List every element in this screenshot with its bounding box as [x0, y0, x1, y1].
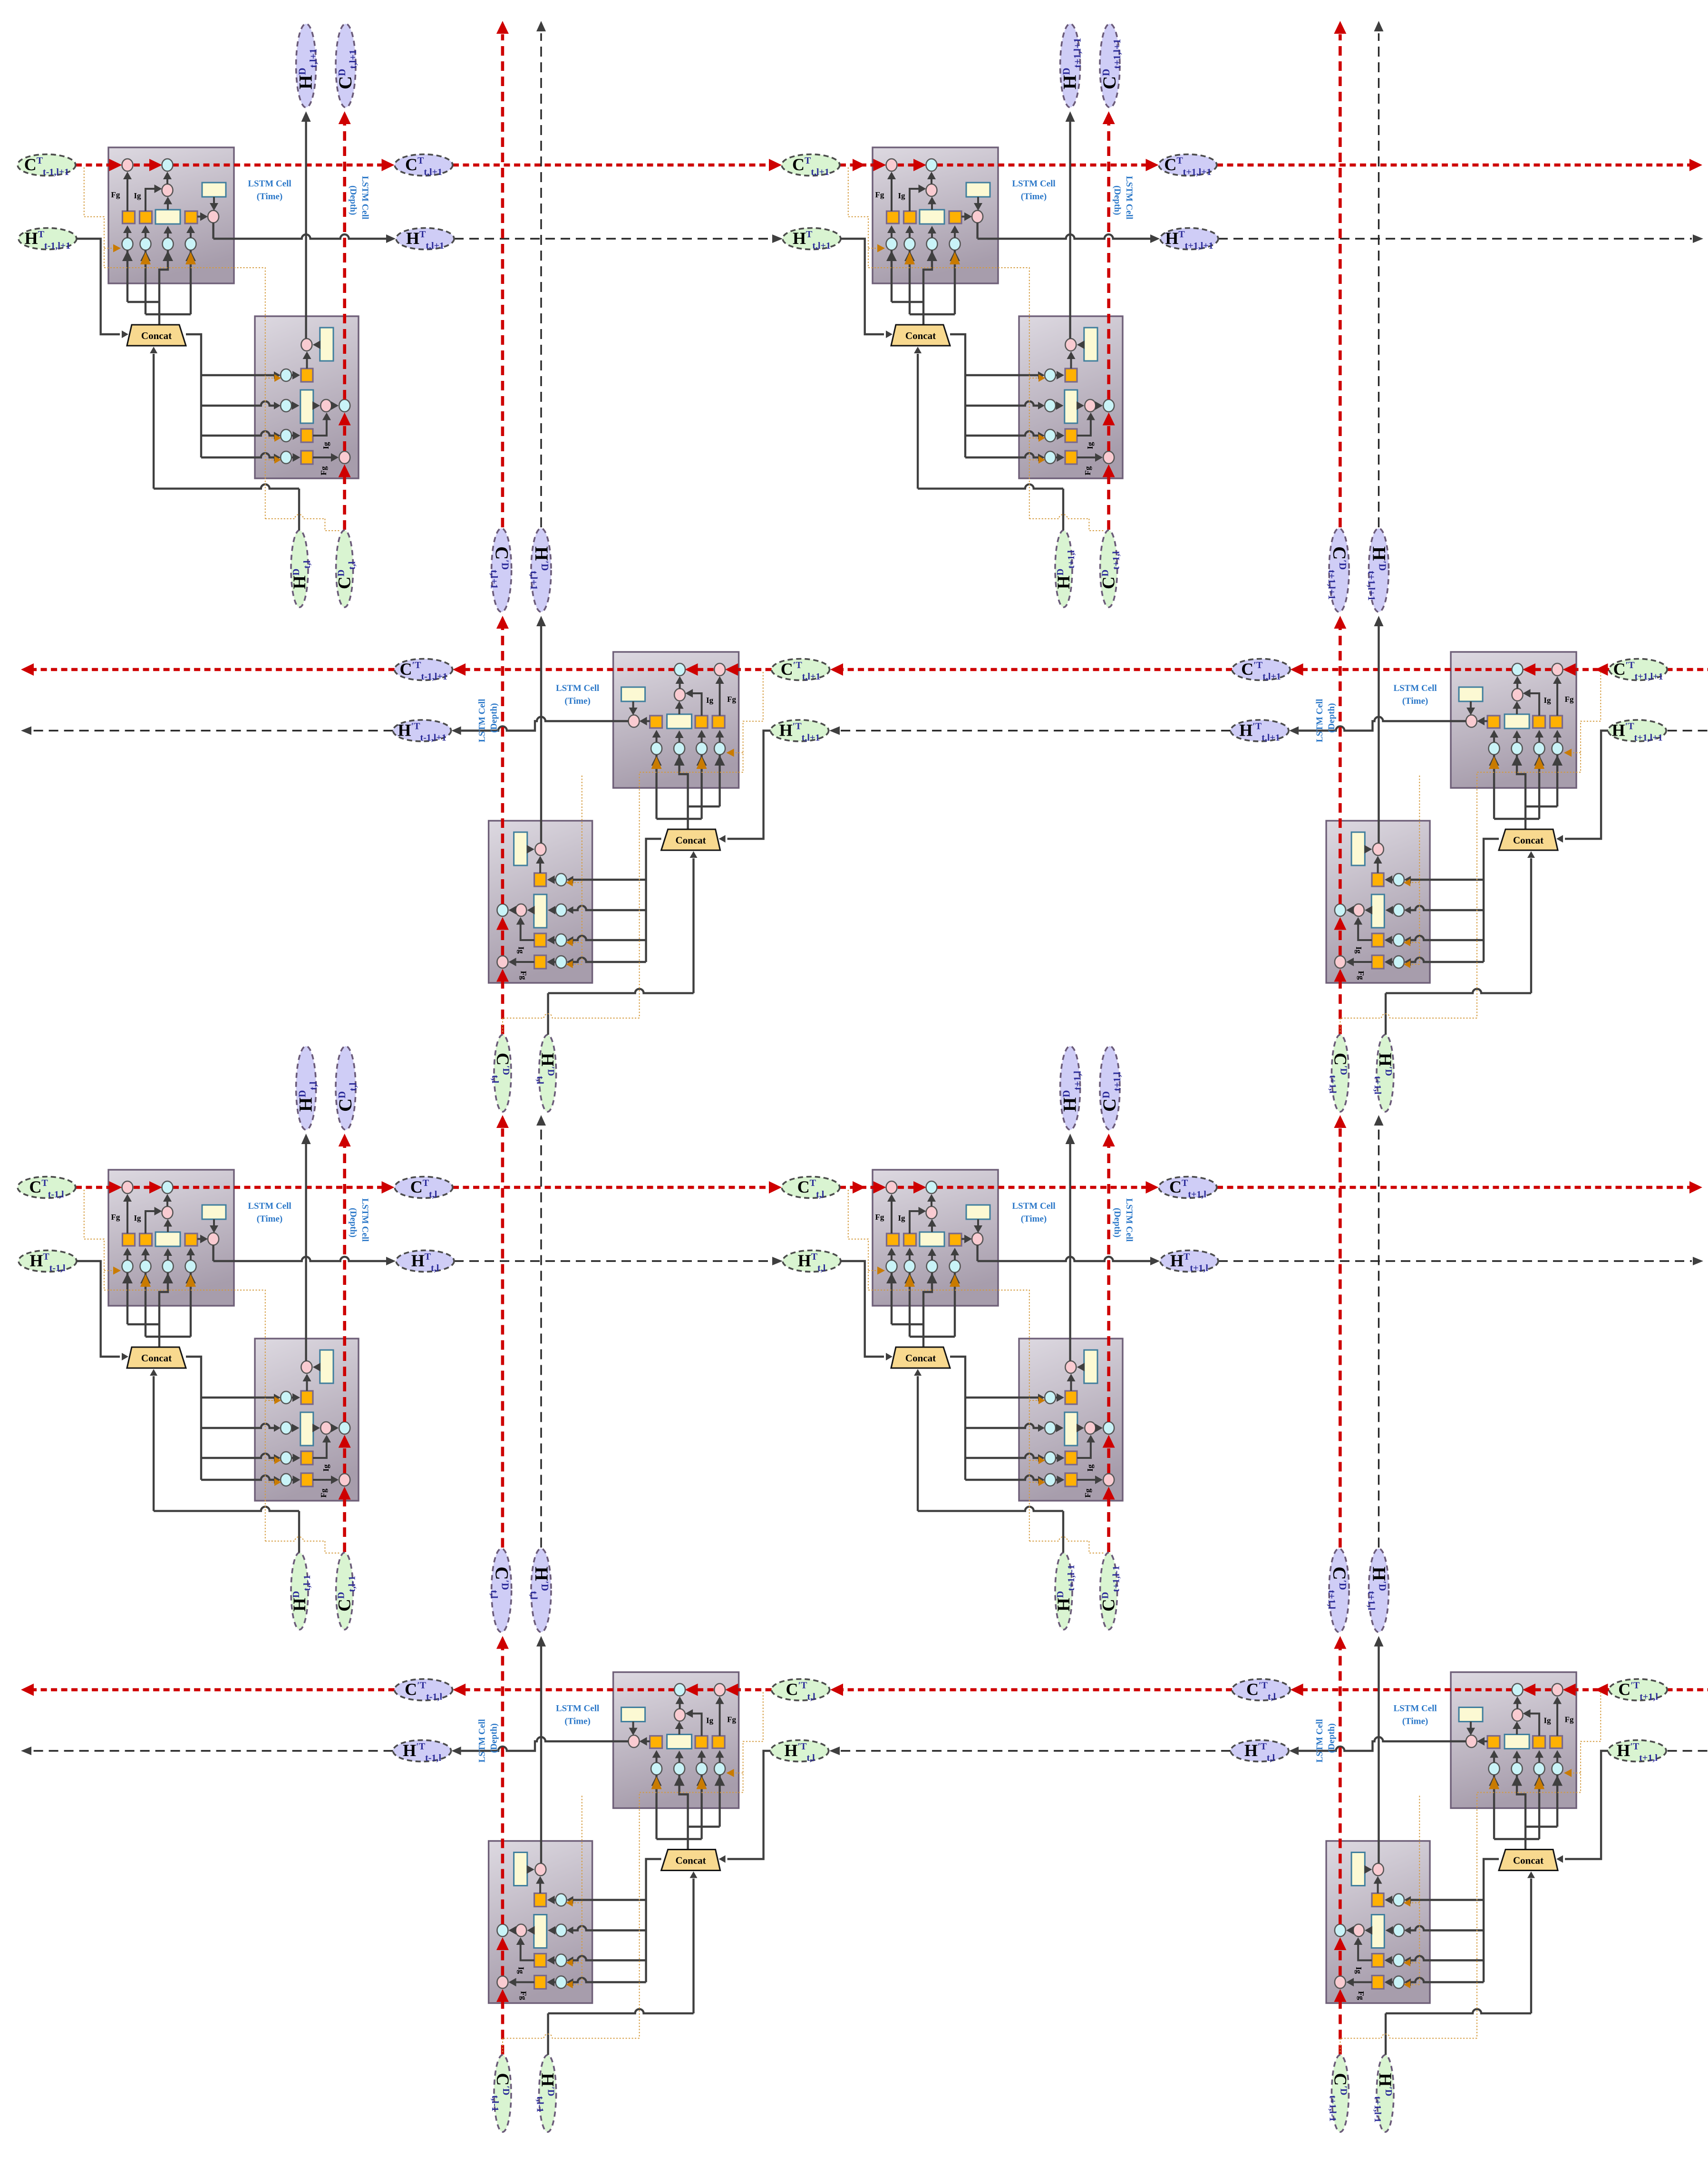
svg-text:Ig: Ig — [321, 1464, 330, 1472]
N4: depth gate square row1 — [1065, 1391, 1077, 1404]
N3: depth gate square row4 — [301, 1473, 313, 1486]
N4: ellipse input H state — [783, 1251, 841, 1272]
M1: node cyan input 1 — [714, 742, 725, 755]
M1: wire cyan2->Ig->pink — [685, 689, 706, 742]
N2: wire H input to concat — [841, 239, 893, 338]
svg-text:(Depth): (Depth) — [1112, 185, 1122, 215]
svg-text:Fg: Fg — [319, 1488, 328, 1497]
N2: wire concat output to depth cell — [950, 334, 1045, 461]
N2: wire cyan4->Og->output pink — [951, 213, 972, 238]
M1: wire depth H output up — [536, 616, 546, 843]
M2: wire depth H input to concat — [1386, 851, 1535, 1035]
N3: ellipse depth H out — [296, 1046, 316, 1130]
N4: node cyan add on C line — [926, 1181, 937, 1194]
N4: depth output tanh rect — [1084, 1350, 1097, 1383]
M2: depth wire row1 — [1374, 856, 1394, 884]
N2: ellipse output C state — [1159, 155, 1217, 176]
M1: gate Og square — [650, 716, 662, 728]
svg-text:LSTM Cell: LSTM Cell — [360, 176, 370, 219]
svg-text:Fg: Fg — [319, 466, 328, 475]
N1: depth gate square row3 — [301, 429, 313, 442]
M4: depth node cyan row3 — [1393, 1954, 1404, 1967]
M4: depth node cyan row4 — [1393, 1976, 1404, 1989]
M2: depth node pink on red line — [1335, 956, 1346, 968]
N2: extra red arrow after input ellipse — [853, 159, 865, 171]
svg-text:LSTM Cell: LSTM Cell — [1393, 683, 1436, 693]
N1: depth node cyan row2 — [281, 399, 291, 412]
M3: wire H output to ellipse (jog) — [452, 1737, 629, 1755]
N3: wire cyan2->Ig->pink — [141, 1207, 162, 1260]
M4: node pink Ig-product — [1512, 1709, 1523, 1721]
wire H row3 between clusters — [454, 1260, 771, 1262]
N2: node cyan input 2 — [904, 238, 915, 250]
N3: ellipse output C state — [395, 1177, 453, 1198]
N1: gate Fg square — [123, 211, 135, 223]
svg-text:(Depth): (Depth) — [489, 703, 499, 733]
N4: depth node pink on red line — [1103, 1474, 1114, 1486]
N2: depth node cyan on red line — [1103, 399, 1114, 412]
N4: wire C-state into time cell (red dashed) — [840, 1181, 1159, 1194]
N4: depth wire row3 — [1056, 1435, 1095, 1463]
svg-text:Ig: Ig — [1544, 1716, 1552, 1725]
N1: ellipse output C state — [395, 155, 453, 176]
M2: node pink output product — [1466, 715, 1477, 728]
M3: depth gate square row4 — [534, 1976, 546, 1989]
M3: node pink Ig-product — [674, 1709, 685, 1721]
N1: wire depth H input to concat — [150, 347, 299, 530]
N2: node cyan input 4 — [950, 238, 961, 250]
N2: node cyan input 3 — [927, 238, 938, 250]
M2: node cyan add on C line — [1512, 663, 1523, 676]
M3: output tanh rect — [621, 1708, 645, 1722]
svg-text:Ig: Ig — [134, 191, 141, 200]
N3: peephole wires (orange dotted) — [84, 1190, 340, 1553]
M3: ellipse input C state — [772, 1679, 830, 1700]
M2: depth wire tanh->pink — [1364, 845, 1372, 854]
M1: gate Fg square — [712, 716, 725, 728]
M3: depth node cyan on red line — [497, 1924, 508, 1937]
M2: node cyan input 2 — [1534, 742, 1545, 755]
wire H row2 to left edge — [32, 730, 393, 731]
N2: wire C-state into time cell (red dashed) — [840, 159, 1159, 171]
N2: ellipse depth C in — [1100, 530, 1117, 607]
M1: depth node cyan row4 — [556, 956, 567, 968]
M3: wire out-tanh->output pink — [629, 1722, 638, 1736]
M3: concat block — [661, 1850, 720, 1871]
M2: output tanh rect — [1459, 687, 1483, 701]
N1: depth wire row3 — [291, 413, 331, 440]
wire H row2 from right edge — [1668, 730, 1708, 731]
M2: ellipse output H state — [1231, 720, 1289, 741]
N1: peephole wires (orange dotted) — [84, 167, 340, 531]
N2: depth wire row2 — [1056, 401, 1103, 410]
wire H row4 between clusters — [841, 1750, 1231, 1751]
svg-text:Ig: Ig — [1354, 946, 1363, 954]
N2: depth wire tanh->pink — [1077, 340, 1085, 349]
M3: node pink output product — [629, 1735, 640, 1748]
N3: depth wire row3 — [291, 1435, 331, 1463]
M1: depth gate square row3 — [534, 933, 546, 947]
N1: depth node pink mid — [320, 399, 331, 412]
svg-text:Concat: Concat — [905, 1352, 936, 1364]
N2: wire cyan1->Fg->multiply — [887, 172, 896, 238]
N4: node cyan input 2 — [904, 1260, 915, 1272]
M1: depth node pink mid — [515, 904, 526, 916]
N4: node cyan input 3 — [927, 1260, 938, 1272]
M1: node pink Ig-product — [674, 689, 685, 701]
N3: wire C-state into time cell (red dashed) — [76, 1181, 395, 1194]
M3: depth continuation dashed up (black) — [536, 1115, 546, 1548]
M4: wire depth H input to concat — [1386, 1872, 1535, 2055]
M4: depth node pink mid — [1353, 1924, 1364, 1937]
M4: depth output tanh rect — [1351, 1853, 1365, 1886]
N2: depth wire row4 — [1056, 453, 1103, 462]
N1: depth node cyan row1 — [281, 369, 291, 381]
N4: wire cyan1->Fg->multiply — [887, 1194, 896, 1260]
svg-text:(Depth): (Depth) — [1112, 1208, 1122, 1237]
M2: depth wire row4 — [1346, 958, 1393, 966]
N3: node pink Ig-product — [162, 1206, 173, 1219]
N2: gate candidate tanh rect — [920, 210, 944, 224]
N2: node cyan input 1 — [886, 238, 897, 250]
M1: gate candidate tanh rect — [667, 714, 692, 728]
N4: wire cyan3->tanh->pink->add — [927, 1194, 936, 1260]
wire C row3 to right edge — [1217, 1186, 1691, 1189]
M2: wire cyan3->tanh->pink->add — [1513, 676, 1522, 742]
svg-text:LSTM Cell: LSTM Cell — [556, 683, 599, 693]
wire C row2 from right edge — [1667, 668, 1708, 671]
N4: depth gate square row3 — [1065, 1451, 1077, 1465]
N4: wire H output to ellipse — [978, 1245, 1160, 1266]
M1: wire depth H input to concat — [548, 851, 698, 1035]
N2: depth node pink output — [1065, 339, 1076, 351]
M3: depth node cyan row2 — [556, 1924, 567, 1937]
M2: wire depth H output up — [1374, 616, 1384, 843]
N2: depth node pink on red line — [1103, 451, 1114, 464]
M4: ellipse input C state — [1609, 1679, 1667, 1700]
N3: ellipse depth C out — [336, 1046, 356, 1130]
M3: depth wire row1 — [536, 1876, 556, 1904]
N4: node cyan input 1 — [886, 1260, 897, 1272]
N2: wire depth C state (red, vertical) — [1103, 111, 1115, 530]
N4: LSTM time-cell box — [873, 1170, 998, 1306]
M4: output tanh rect — [1459, 1708, 1483, 1722]
wire C row3 between clusters — [453, 1186, 770, 1189]
N1: node pink output product — [208, 211, 219, 223]
wire H row1 to right edge — [1218, 238, 1692, 239]
M2: wire concat output to depth cell — [1404, 839, 1499, 966]
N4: node cyan input 4 — [950, 1260, 961, 1272]
M2: extra red arrow after input ellipse — [1595, 663, 1608, 676]
M2: depth continuation dashed up (black) — [1374, 21, 1384, 527]
N3: node pink output product — [208, 1233, 219, 1245]
M4: depth wire row4 — [1346, 1978, 1393, 1987]
svg-text:Fg: Fg — [1565, 695, 1574, 704]
N1: ellipse depth C out — [336, 24, 356, 107]
M4: depth continuation dashed up (black) — [1374, 1115, 1384, 1548]
N1: node cyan input 2 — [140, 238, 151, 250]
N2: gate Og square — [949, 211, 961, 223]
N1: ellipse depth C in — [336, 530, 353, 607]
M1: wire C-state into time cell (red dashed) — [453, 663, 772, 676]
N2: depth gate tanh tall rect — [1065, 390, 1077, 423]
M2: depth wire row3 — [1354, 917, 1393, 945]
svg-text:Concat: Concat — [676, 835, 706, 846]
wire H row1 between clusters (black dashed) — [454, 238, 771, 239]
M2: wire cyan4->Og->output pink — [1477, 717, 1498, 743]
svg-text:(Depth): (Depth) — [348, 1208, 358, 1237]
N4: depth node cyan row3 — [1045, 1452, 1056, 1464]
M1: depth node cyan row3 — [556, 934, 567, 946]
M4: ellipse depth C in — [1332, 2055, 1349, 2132]
N2: node cyan add on C line — [926, 159, 937, 171]
M1: ellipse output C state — [395, 659, 453, 680]
N2: wire cyan2->Ig->pink — [905, 184, 926, 238]
svg-text:LSTM Cell: LSTM Cell — [1124, 1198, 1134, 1242]
N4: depth node cyan row4 — [1045, 1474, 1056, 1486]
svg-text:Ig: Ig — [898, 191, 905, 200]
M3: wire cyan2->Ig->pink — [685, 1709, 706, 1763]
M4: depth node cyan on red line — [1335, 1924, 1346, 1937]
N4: wire H input to concat — [841, 1261, 893, 1360]
M1: concat block — [661, 829, 720, 850]
M3: depth gate square row3 — [534, 1954, 546, 1967]
svg-text:Ig: Ig — [517, 1967, 526, 1974]
M3: depth node cyan row3 — [556, 1954, 567, 1967]
N3: depth wire row4 — [291, 1476, 339, 1484]
M4: extra red arrow after input ellipse — [1595, 1684, 1608, 1696]
M3: wire depth C state (red, vertical) — [496, 1636, 509, 2055]
N3: gate Ig square — [140, 1233, 152, 1246]
N2: depth gate square row1 — [1065, 369, 1077, 382]
N4: node pink multiply on C line — [886, 1181, 897, 1194]
M4: wire out-tanh->output pink — [1466, 1722, 1475, 1736]
M3: depth node pink mid — [515, 1924, 526, 1937]
N3: depth wire row1 — [291, 1374, 311, 1402]
M2: depth node cyan row4 — [1393, 956, 1404, 968]
M3: gate Og square — [650, 1736, 662, 1748]
M1: ellipse depth C in — [494, 1035, 511, 1112]
svg-text:Fg: Fg — [111, 1213, 120, 1222]
N3: node cyan input 2 — [140, 1260, 151, 1272]
M3: depth node cyan row4 — [556, 1976, 567, 1989]
N1: wire cyan2->Ig->pink — [141, 184, 162, 238]
M4: wire cyan2->Ig->pink — [1523, 1709, 1544, 1763]
wire C row1 between clusters (red dashed) — [453, 164, 770, 167]
M1: ellipse depth H out — [531, 528, 551, 612]
M3: depth wire tanh->pink — [527, 1865, 534, 1874]
M4: wire cyan4->Og->output pink — [1477, 1737, 1498, 1763]
N1: wire cyan4->Og->output pink — [186, 213, 208, 238]
svg-text:Ig: Ig — [1354, 1967, 1363, 1974]
M4: ellipse depth H in — [1377, 2055, 1394, 2132]
svg-text:Ig: Ig — [1086, 442, 1095, 449]
M1: depth output tanh rect — [514, 832, 527, 865]
M2: wire cell feedback to concat — [1489, 755, 1562, 829]
M1: ellipse input C state — [772, 659, 830, 680]
M3: gate candidate tanh rect — [667, 1735, 692, 1749]
N3: ellipse depth C in — [336, 1553, 353, 1630]
wire C row4 to left edge — [32, 1688, 395, 1691]
M2: node pink Ig-product — [1512, 689, 1523, 701]
svg-text:Concat: Concat — [676, 1855, 706, 1866]
N4: node pink Ig-product — [926, 1206, 937, 1219]
M2: ellipse depth H in — [1377, 1035, 1394, 1112]
M1: LSTM depth-cell box — [489, 821, 592, 983]
M1: depth wire tanh->pink — [527, 845, 534, 854]
M2: wire H output to ellipse (jog) — [1289, 717, 1466, 735]
N1: wire cyan1->Fg->multiply — [123, 172, 132, 238]
N4: wire depth H input to concat — [914, 1369, 1063, 1553]
M3: ellipse depth H in — [539, 2055, 556, 2132]
M1: output tanh rect — [621, 687, 645, 701]
M4: gate Ig square — [1533, 1736, 1545, 1748]
N3: wire depth C state (red, vertical) — [339, 1134, 351, 1552]
M2: wire cyan1->Fg->multiply — [1553, 676, 1562, 742]
N2: depth gate square row3 — [1065, 429, 1077, 442]
M3: wire concat output to depth cell — [567, 1859, 661, 1986]
N2: ellipse depth H out — [1060, 24, 1080, 107]
N2: ellipse input C state — [782, 155, 840, 176]
M3: wire depth H output up — [536, 1636, 546, 1864]
M2: depth node cyan row1 — [1393, 874, 1404, 886]
M1: depth node cyan row1 — [556, 874, 567, 886]
M4: node pink output product — [1466, 1735, 1477, 1748]
svg-text:(Depth): (Depth) — [489, 1723, 499, 1753]
M1: LSTM time-cell box — [613, 652, 739, 788]
M3: LSTM depth-cell box — [489, 1841, 592, 2003]
M1: depth gate square row1 — [534, 873, 546, 886]
svg-text:LSTM Cell: LSTM Cell — [248, 1201, 291, 1211]
M3: ellipse input H state — [771, 1740, 829, 1762]
N1: wire H input to concat — [77, 239, 128, 338]
N3: output tanh rect — [202, 1205, 226, 1219]
svg-text:LSTM Cell: LSTM Cell — [477, 699, 487, 742]
N3: LSTM depth-cell box — [255, 1339, 359, 1501]
N3: depth wire tanh->pink — [313, 1363, 320, 1371]
M4: node cyan input 1 — [1552, 1763, 1563, 1775]
M2: gate Og square — [1487, 716, 1500, 728]
N2: depth wire row3 — [1056, 413, 1095, 440]
N4: output tanh rect — [966, 1205, 990, 1219]
N4: gate Ig square — [904, 1233, 916, 1246]
svg-text:Fg: Fg — [875, 1213, 884, 1222]
M4: peephole wires (orange dotted) — [1340, 1692, 1601, 2054]
N1: wire H output to ellipse — [213, 223, 396, 243]
N2: gate Ig square — [904, 211, 916, 223]
N2: ellipse input H state — [783, 228, 841, 250]
N2: LSTM time-cell box — [873, 147, 998, 283]
svg-text:Fg: Fg — [727, 1715, 736, 1724]
M2: depth node cyan on red line — [1335, 904, 1346, 916]
N3: ellipse output H state — [396, 1251, 454, 1272]
N2: wire cell feedback to concat — [886, 250, 960, 325]
M2: LSTM time-cell box — [1451, 652, 1576, 788]
M3: depth wire row4 — [509, 1978, 556, 1987]
N4: extra red arrow after input ellipse — [853, 1181, 865, 1194]
N1: ellipse input H state — [19, 228, 77, 250]
N4: depth gate tanh tall rect — [1065, 1412, 1077, 1446]
M1: wire cyan1->Fg->multiply — [716, 676, 724, 742]
N4: depth gate square row4 — [1065, 1473, 1077, 1486]
M2: peephole wires (orange dotted) — [1340, 672, 1601, 1034]
N4: wire out-tanh->output pink — [974, 1219, 982, 1233]
M1: node cyan input 2 — [696, 742, 707, 755]
N3: depth node pink on red line — [339, 1474, 350, 1486]
M4: wire depth C state (red, vertical) — [1334, 1636, 1346, 2055]
N3: wire cyan4->Og->output pink — [186, 1235, 208, 1261]
N1: depth node cyan on red line — [339, 399, 350, 412]
svg-text:(Time): (Time) — [1021, 1214, 1047, 1224]
N4: gate candidate tanh rect — [920, 1232, 944, 1246]
M3: depth gate tanh tall rect — [534, 1915, 547, 1948]
M3: LSTM time-cell box — [613, 1672, 739, 1808]
N1: depth gate square row4 — [301, 451, 313, 464]
M1: depth node pink output — [535, 843, 546, 855]
N4: depth node cyan row2 — [1045, 1422, 1056, 1434]
N4: ellipse depth C out — [1100, 1046, 1120, 1130]
svg-text:Ig: Ig — [1544, 696, 1552, 705]
N3: wire depth H input to concat — [150, 1369, 299, 1553]
svg-text:Fg: Fg — [875, 190, 884, 199]
M1: wire H input to concat — [719, 731, 771, 843]
wire C row4 from right edge — [1667, 1688, 1708, 1691]
N4: depth node pink output — [1065, 1361, 1076, 1373]
M4: depth node cyan row2 — [1393, 1924, 1404, 1937]
N1: wire out-tanh->output pink — [210, 197, 218, 211]
M4: wire H input to concat — [1556, 1751, 1608, 1863]
N2: depth node cyan row3 — [1045, 429, 1056, 442]
M3: ellipse output C state — [395, 1679, 453, 1700]
M3: wire H input to concat — [719, 1751, 771, 1863]
svg-text:LSTM Cell: LSTM Cell — [477, 1719, 487, 1762]
M1: peephole wires (orange dotted) — [503, 672, 763, 1034]
N1: depth gate square row1 — [301, 369, 313, 382]
M3: gate Ig square — [695, 1736, 708, 1748]
N1: node pink multiply on C line — [122, 159, 133, 171]
N1: output tanh rect — [202, 183, 226, 197]
N2: wire depth H output up — [1066, 111, 1075, 339]
M4: wire concat output to depth cell — [1404, 1859, 1499, 1986]
M3: gate Fg square — [712, 1736, 725, 1748]
N2: depth node pink mid — [1085, 399, 1096, 412]
svg-text:Concat: Concat — [141, 330, 172, 341]
svg-text:Fg: Fg — [519, 1991, 528, 2000]
M2: depth node pink output — [1373, 843, 1384, 855]
svg-text:(Time): (Time) — [564, 696, 591, 706]
N1: node cyan input 4 — [185, 238, 196, 250]
M1: node cyan add on C line — [674, 663, 685, 676]
M1: wire H output to ellipse (jog) — [452, 717, 629, 735]
N3: depth gate tanh tall rect — [301, 1412, 313, 1446]
N4: ellipse depth C in — [1100, 1553, 1117, 1630]
N3: wire H output to ellipse — [213, 1245, 396, 1266]
M1: depth wire row1 — [536, 856, 556, 884]
M3: depth gate square row1 — [534, 1893, 546, 1907]
M1: node pink output product — [629, 715, 640, 728]
N4: depth wire row1 — [1056, 1374, 1076, 1402]
M2: depth node pink mid — [1353, 904, 1364, 916]
N4: wire concat output to depth cell — [950, 1357, 1045, 1484]
N1: depth wire row1 — [291, 351, 311, 379]
N3: wire H input to concat — [77, 1261, 128, 1360]
M2: depth wire row2 — [1346, 906, 1393, 914]
M2: depth continuation dashed up (red) — [1334, 21, 1346, 527]
N1: ellipse output H state — [396, 228, 454, 250]
M1: node cyan input 4 — [651, 742, 662, 755]
M1: gate Ig square — [695, 716, 708, 728]
M1: wire cyan3->tanh->pink->add — [675, 676, 684, 742]
